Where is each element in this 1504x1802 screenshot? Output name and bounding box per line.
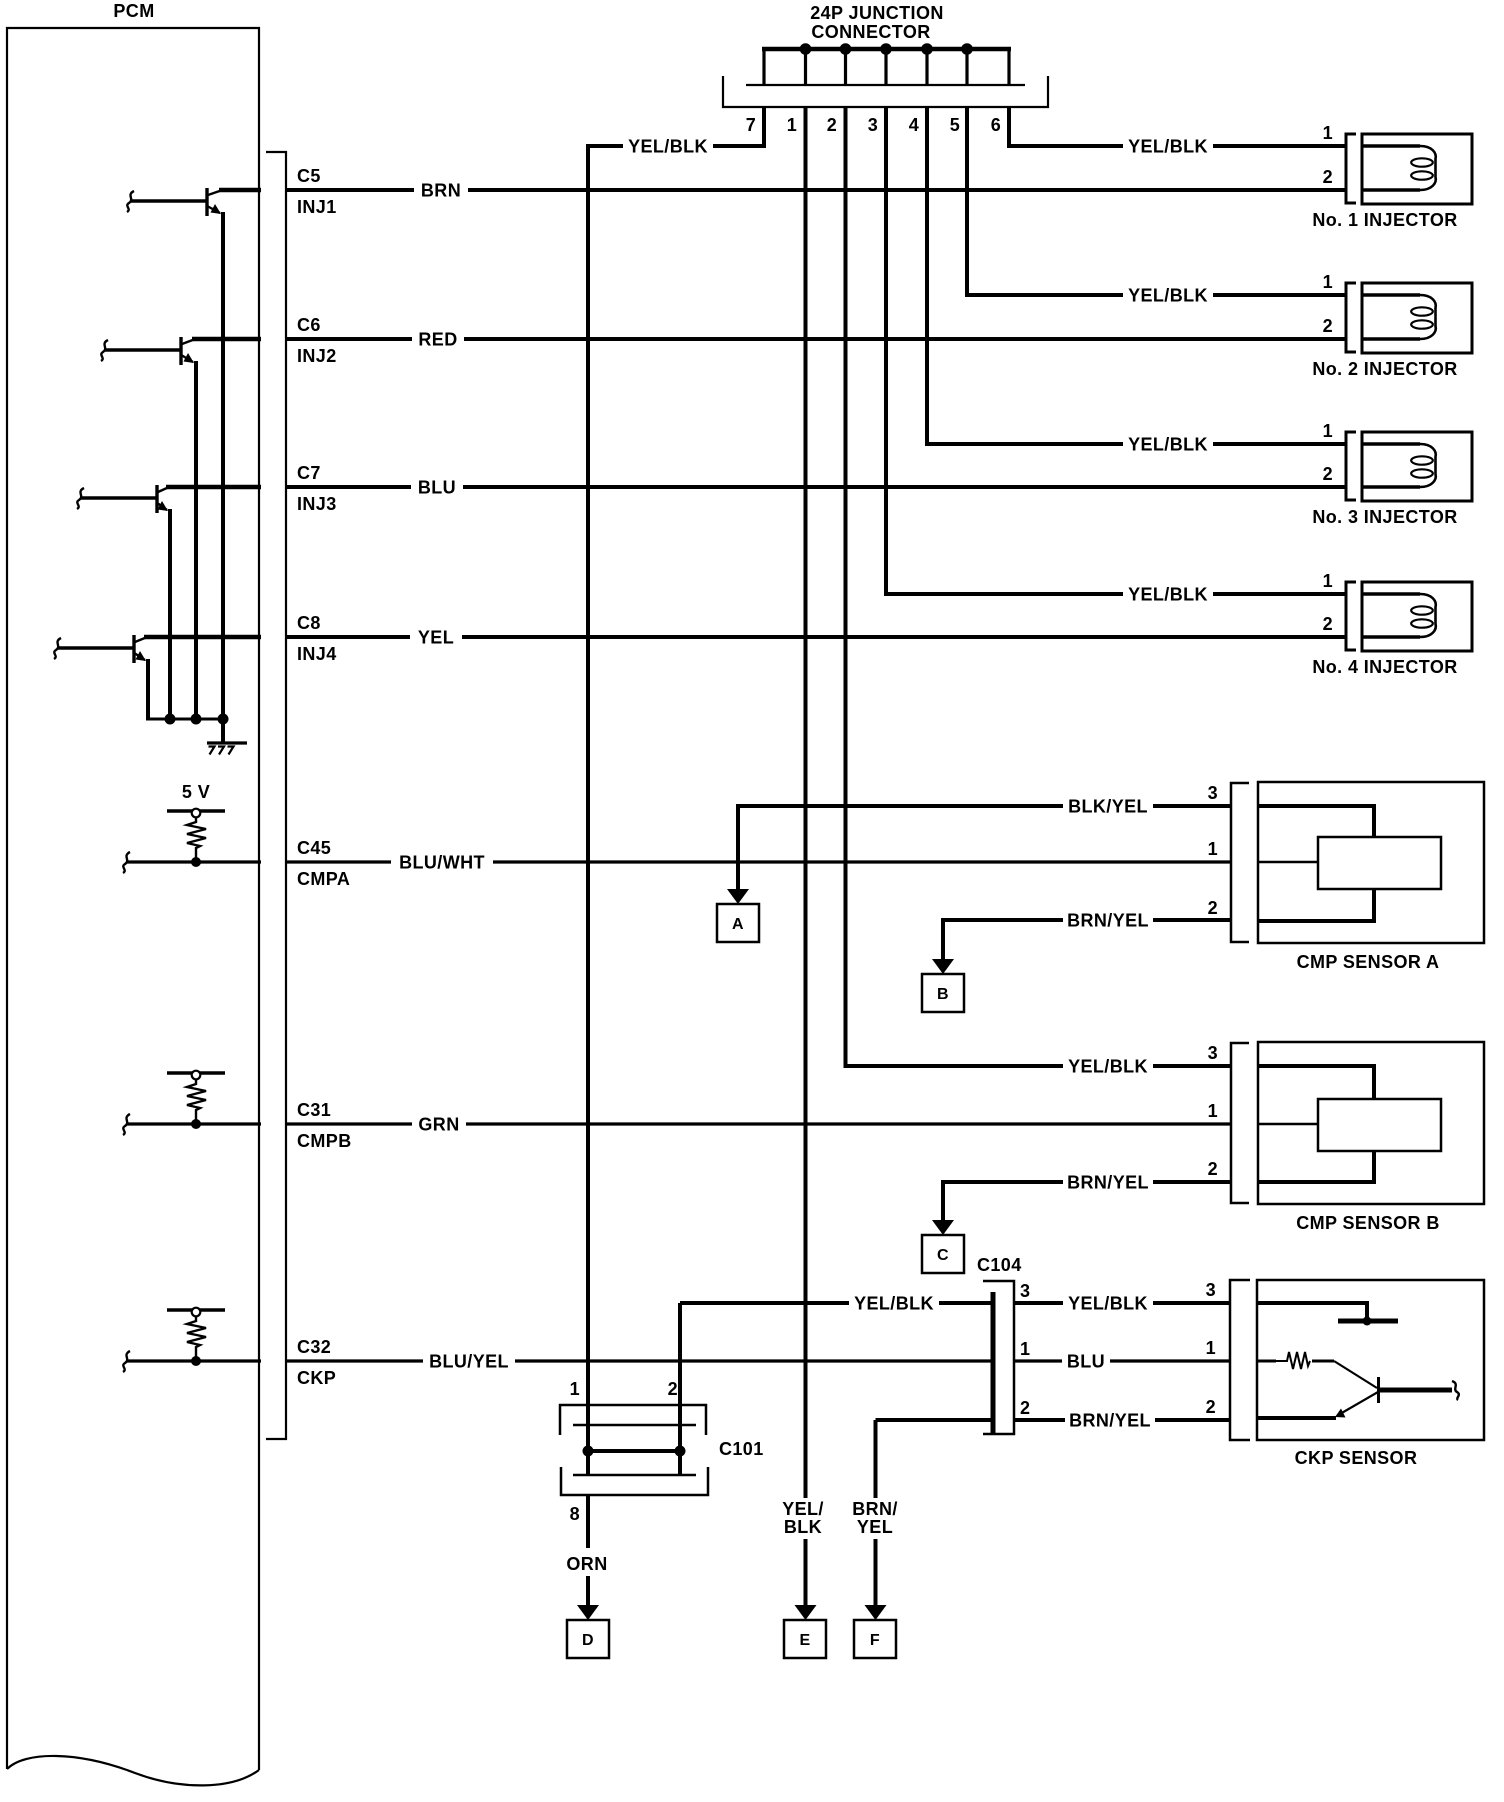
ground stem [221, 719, 225, 743]
wire YEL/BLK C104 to CKP pin 3 [1014, 1301, 1230, 1305]
svg-text:CONNECTOR: CONNECTOR [811, 22, 930, 42]
24P junction connector housing [746, 84, 1025, 86]
C104 connector shell [983, 1281, 1014, 1434]
wire junction pin4 to No.3 injector YEL/BLK [927, 442, 1346, 446]
CKP pin 2 internal wire [1257, 1416, 1336, 1420]
svg-text:INJ4: INJ4 [297, 644, 337, 664]
pull-up resistor [187, 1079, 206, 1124]
svg-text:2: 2 [1323, 316, 1333, 336]
svg-text:2: 2 [1208, 898, 1218, 918]
svg-text:YEL/BLK: YEL/BLK [854, 1294, 934, 1314]
supply terminal circle [192, 809, 201, 818]
svg-text:YEL/BLK: YEL/BLK [1128, 585, 1208, 605]
svg-text:BLU: BLU [1067, 1352, 1105, 1372]
svg-text:RED: RED [418, 330, 457, 350]
svg-text:1: 1 [1206, 1338, 1216, 1358]
svg-text:YEL/BLK: YEL/BLK [628, 137, 708, 157]
svg-text:2: 2 [1323, 167, 1333, 187]
svg-text:1: 1 [1323, 421, 1333, 441]
svg-text:5: 5 [950, 115, 960, 135]
svg-text:ORN: ORN [566, 1554, 607, 1574]
svg-text:C6: C6 [297, 315, 321, 335]
svg-text:C101: C101 [719, 1439, 764, 1459]
No. 2 injector coil [1362, 293, 1420, 297]
supply terminal circle [192, 1308, 201, 1317]
C101 connector upper shell [560, 1405, 706, 1435]
CMP sensor A body [1258, 782, 1484, 943]
svg-text:A: A [732, 916, 744, 933]
svg-text:INJ3: INJ3 [297, 494, 337, 514]
No. 2 injector connector bracket [1346, 283, 1356, 352]
wire BRN/YEL to CMP sensor A pin 2 [943, 920, 1231, 960]
connector box A [717, 904, 759, 942]
power rail bar [167, 1308, 225, 1312]
arrow to E [795, 1605, 817, 1620]
No. 3 injector coil [1362, 442, 1420, 446]
svg-text:YEL: YEL [857, 1517, 893, 1537]
svg-text:1: 1 [1208, 1101, 1218, 1121]
arrow to C [932, 1220, 954, 1235]
transistor emitter with arrow [135, 654, 145, 661]
arrow to A [727, 889, 749, 904]
transistor base wire [131, 199, 206, 202]
wire C45 BLU/WHT to CMP sensor A pin 1 [286, 860, 1231, 863]
svg-text:No. 1 INJECTOR: No. 1 INJECTOR [1312, 210, 1457, 230]
pull-up resistor [187, 1316, 206, 1361]
CMP sensor B pin 1 internal wire [1258, 1123, 1319, 1126]
wire pin2 vertical YEL/BLK to CMP sensor B [844, 107, 848, 1068]
wire C31 left segment with continuation squiggle [123, 1114, 130, 1135]
wire C5 BRN to injector [286, 188, 1346, 192]
svg-text:3: 3 [1208, 783, 1218, 803]
emitter common bus [146, 718, 223, 721]
emitter drop wire [221, 212, 225, 719]
PCM connector bar [266, 152, 286, 1439]
svg-text:BRN/YEL: BRN/YEL [1067, 1173, 1149, 1193]
connector box E [784, 1620, 826, 1658]
svg-text:YEL/BLK: YEL/BLK [1068, 1057, 1148, 1077]
svg-text:YEL: YEL [418, 628, 454, 648]
svg-text:No. 3 INJECTOR: No. 3 INJECTOR [1312, 507, 1457, 527]
C101 joint bus with dots [588, 1449, 680, 1453]
svg-text:7: 7 [746, 115, 756, 135]
svg-text:INJ2: INJ2 [297, 346, 337, 366]
svg-text:BLU/YEL: BLU/YEL [429, 1352, 509, 1372]
junction pin 6 stub below housing [1007, 107, 1011, 148]
wire C6 RED to injector [286, 337, 1346, 341]
CKP sensor body [1257, 1280, 1484, 1440]
wire C32 BLU/YEL to C104 pin 1 [286, 1359, 994, 1362]
transistor emitter with arrow [182, 356, 193, 363]
svg-text:C8: C8 [297, 613, 321, 633]
wire BRN/YEL C104 to CKP pin 2 [1014, 1418, 1230, 1422]
pull-up resistor [187, 817, 206, 862]
svg-text:C31: C31 [297, 1100, 331, 1120]
wire C8 YEL to injector [286, 635, 1346, 639]
svg-text:No. 2 INJECTOR: No. 2 INJECTOR [1312, 359, 1457, 379]
connector box D [567, 1620, 609, 1658]
wire pin1 vertical YEL/BLK to E [804, 107, 808, 1498]
wire YEL/BLK junction pin2 to CMP sensor B pin 3 [846, 1064, 1232, 1068]
svg-text:BRN/YEL: BRN/YEL [1067, 911, 1149, 931]
svg-text:E: E [799, 1632, 810, 1649]
svg-text:3: 3 [1020, 1281, 1030, 1301]
CMP sensor A pin 2 internal wire [1258, 888, 1374, 921]
svg-text:GRN: GRN [418, 1115, 459, 1135]
CMP sensor B pin 3 internal wire [1258, 1066, 1374, 1100]
No. 3 injector body [1362, 432, 1472, 501]
No. 2 injector body [1362, 283, 1472, 353]
svg-text:2: 2 [1020, 1398, 1030, 1418]
svg-text:PCM: PCM [113, 1, 154, 21]
transistor base wire [105, 348, 180, 351]
junction bus solder dots [800, 43, 812, 55]
No. 1 injector connector bracket [1346, 134, 1356, 203]
wire junction pin5 to No.2 injector YEL/BLK [967, 293, 1346, 297]
svg-text:YEL/BLK: YEL/BLK [1068, 1294, 1148, 1314]
svg-text:CKP SENSOR: CKP SENSOR [1295, 1448, 1418, 1468]
transistor base continuation squiggle [77, 488, 84, 509]
transistor base continuation squiggle [101, 340, 108, 361]
No. 3 injector connector bracket [1346, 432, 1356, 500]
svg-text:3: 3 [1208, 1043, 1218, 1063]
svg-text:24P JUNCTION: 24P JUNCTION [810, 3, 944, 23]
svg-text:1: 1 [787, 115, 797, 135]
svg-text:CMP SENSOR A: CMP SENSOR A [1297, 952, 1440, 972]
svg-text:3: 3 [1206, 1280, 1216, 1300]
svg-text:YEL/: YEL/ [782, 1499, 824, 1519]
svg-text:3: 3 [868, 115, 878, 135]
power rail bar [167, 809, 225, 813]
wire pin4 vertical YEL/BLK to No.3 injector [925, 107, 929, 446]
wire junction pin6 to No.1 injector YEL/BLK [1007, 144, 1346, 148]
svg-text:CKP: CKP [297, 1368, 336, 1388]
transistor collector [208, 191, 221, 196]
power rail bar [167, 1071, 225, 1075]
emitter drop wire [146, 659, 150, 719]
svg-text:1: 1 [1323, 272, 1333, 292]
svg-text:1: 1 [1020, 1339, 1030, 1359]
svg-text:2: 2 [1206, 1397, 1216, 1417]
svg-text:4: 4 [909, 115, 919, 135]
No. 4 injector coil [1362, 592, 1420, 596]
CMP sensor B body [1258, 1042, 1484, 1204]
wire YEL/BLK C101 pin2 to C104 pin 3 [680, 1301, 994, 1305]
emitter bus junction dots [165, 714, 176, 725]
svg-text:C45: C45 [297, 838, 331, 858]
wire C31 GRN to CMP sensor B pin 1 [286, 1122, 1231, 1125]
wire BRN/YEL from C104 pin 2 down to F [874, 1420, 878, 1498]
No. 4 injector body [1362, 582, 1472, 651]
transistor base bar [132, 635, 135, 663]
wire BLU C104 to CKP pin 1 [1014, 1359, 1230, 1362]
svg-text:C7: C7 [297, 463, 321, 483]
svg-text:8: 8 [570, 1504, 580, 1524]
svg-text:C: C [937, 1247, 949, 1264]
svg-text:C104: C104 [977, 1255, 1022, 1275]
wire YEL/BLK vertical to C101 pin 1 [586, 144, 590, 1475]
transistor base wire [81, 496, 156, 499]
PCM box torn bottom edge [7, 1756, 259, 1785]
emitter drop wire [168, 509, 172, 719]
svg-text:CMPA: CMPA [297, 869, 350, 889]
svg-text:1: 1 [1323, 571, 1333, 591]
svg-text:1: 1 [570, 1379, 580, 1399]
transistor emitter with arrow [158, 504, 167, 511]
CKP internal transistor base link [1334, 1361, 1377, 1388]
CMP sensor A pin 1 internal wire [1258, 861, 1319, 864]
24P junction connector bus bar [762, 47, 1011, 51]
svg-text:YEL/BLK: YEL/BLK [1128, 137, 1208, 157]
junction connector pin stubs [762, 49, 765, 85]
transistor collector [158, 488, 168, 493]
arrow to F [865, 1605, 887, 1620]
No. 4 injector connector bracket [1346, 582, 1356, 650]
svg-text:YEL/BLK: YEL/BLK [1128, 435, 1208, 455]
CMP sensor A pin 3 internal wire [1258, 806, 1374, 838]
wire C45 left segment with continuation squiggle [123, 852, 130, 873]
svg-text:CMP SENSOR B: CMP SENSOR B [1296, 1213, 1440, 1233]
svg-text:BLU: BLU [418, 478, 456, 498]
transistor base wire [58, 646, 133, 649]
CMP sensor B connector bracket [1231, 1043, 1249, 1203]
wire pin3 vertical YEL/BLK to No.4 injector [884, 107, 888, 596]
svg-text:2: 2 [1323, 614, 1333, 634]
svg-text:BRN: BRN [421, 181, 461, 201]
CKP internal transistor [1377, 1377, 1380, 1403]
CKP sensor connector bracket [1230, 1280, 1250, 1440]
svg-text:BRN/YEL: BRN/YEL [1069, 1411, 1151, 1431]
No. 1 injector body [1362, 134, 1472, 204]
connector box C [922, 1235, 964, 1273]
svg-text:C5: C5 [297, 166, 321, 186]
CKP pin 3 internal case ground [1257, 1303, 1367, 1317]
wire BRN/YEL to CMP sensor B pin 2 [943, 1182, 1231, 1221]
CKP pin 1 internal resistor [1257, 1360, 1276, 1363]
transistor base bar [205, 188, 208, 216]
C104 connector terminal bar [991, 1292, 996, 1433]
No. 1 injector coil [1362, 144, 1420, 148]
transistor base bar [155, 485, 158, 513]
wire BRN/YEL C104 pin 2 left segment [876, 1418, 995, 1422]
C101 connector lower shell [573, 1474, 696, 1477]
transistor base bar [179, 337, 182, 365]
label YEL/BLK top left [623, 136, 713, 156]
wire C7 BLU to injector [286, 485, 1346, 489]
svg-text:1: 1 [1323, 123, 1333, 143]
transistor collector [135, 638, 146, 643]
arrow to D [577, 1605, 599, 1620]
junction pin 7 stub below housing [762, 107, 766, 148]
svg-text:BLK: BLK [784, 1517, 822, 1537]
junction dot on terminal wire [191, 1119, 201, 1129]
wire C32 left segment with continuation squiggle [123, 1351, 130, 1372]
transistor base continuation squiggle [54, 638, 61, 659]
arrow to B [932, 959, 954, 974]
CMP sensor B internal element [1318, 1099, 1441, 1151]
wire pin5 vertical YEL/BLK to No.2 injector [965, 107, 969, 297]
svg-text:CMPB: CMPB [297, 1131, 352, 1151]
CKP collector continuation squiggle [1452, 1381, 1459, 1400]
wire C101 pin 2 vertical [678, 1303, 682, 1475]
CMP sensor A internal element [1318, 837, 1441, 889]
wire junction pin3 to No.4 injector YEL/BLK [886, 592, 1346, 596]
wire C101 pin8 ORN down to D [586, 1495, 590, 1548]
connector box B [922, 974, 964, 1012]
emitter drop wire [194, 361, 198, 719]
svg-text:2: 2 [1208, 1159, 1218, 1179]
transistor emitter with arrow [208, 207, 220, 214]
svg-text:1: 1 [1208, 839, 1218, 859]
supply terminal circle [192, 1071, 201, 1080]
svg-text:2: 2 [827, 115, 837, 135]
svg-text:D: D [582, 1632, 594, 1649]
CMP sensor B pin 2 internal wire [1258, 1150, 1374, 1182]
PCM box outline [7, 28, 259, 1770]
svg-text:2: 2 [1323, 464, 1333, 484]
junction dot on terminal wire [191, 1356, 201, 1366]
wire BLK/YEL to CMP sensor A pin 3 [738, 806, 1231, 890]
svg-text:YEL/BLK: YEL/BLK [1128, 286, 1208, 306]
svg-text:B: B [937, 986, 949, 1003]
transistor collector [182, 340, 194, 345]
ground symbol [207, 741, 247, 744]
junction dot on terminal wire [191, 857, 201, 867]
transistor base continuation squiggle [127, 191, 134, 212]
svg-text:BLK/YEL: BLK/YEL [1068, 797, 1148, 817]
svg-text:6: 6 [991, 115, 1001, 135]
svg-text:C32: C32 [297, 1337, 331, 1357]
svg-text:No. 4 INJECTOR: No. 4 INJECTOR [1312, 657, 1457, 677]
svg-text:5 V: 5 V [182, 782, 210, 802]
svg-text:BRN/: BRN/ [852, 1499, 898, 1519]
wire pin7 horizontal YEL/BLK [586, 144, 766, 148]
svg-text:2: 2 [668, 1379, 678, 1399]
svg-text:F: F [870, 1632, 880, 1649]
connector box F [854, 1620, 896, 1658]
svg-text:INJ1: INJ1 [297, 197, 337, 217]
CMP sensor A connector bracket [1231, 783, 1249, 942]
svg-text:BLU/WHT: BLU/WHT [399, 853, 485, 873]
